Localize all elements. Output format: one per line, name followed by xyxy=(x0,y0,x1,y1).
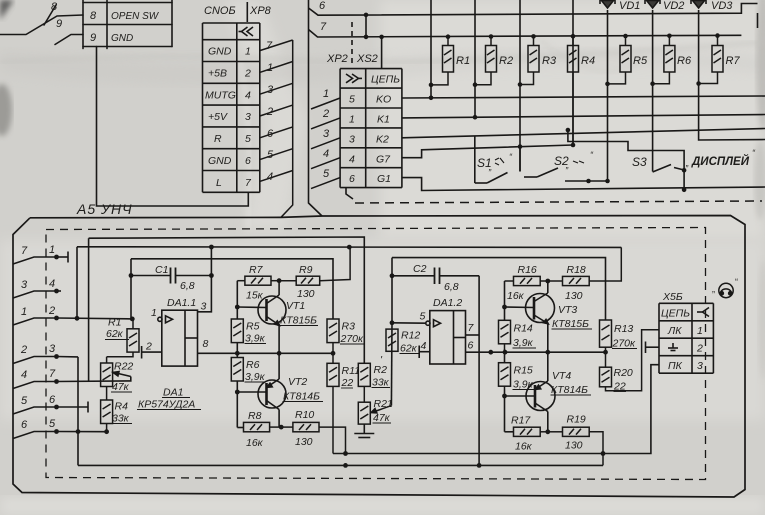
stub into XP2 table xyxy=(381,37,383,69)
resistor R4 xyxy=(568,36,579,145)
resistor R3 (270k) xyxy=(327,319,339,353)
svg-text:G1: G1 xyxy=(377,173,391,185)
pin5 stub xyxy=(392,322,426,324)
svg-text:6: 6 xyxy=(21,419,28,431)
svg-text:4: 4 xyxy=(421,340,427,352)
svg-text:8: 8 xyxy=(90,10,97,22)
svg-text:5: 5 xyxy=(21,395,28,407)
svg-text:1: 1 xyxy=(151,307,157,319)
svg-text:5: 5 xyxy=(245,133,251,145)
svg-text:КР574УД2А: КР574УД2А xyxy=(138,399,195,411)
bottom ground bus xyxy=(78,464,603,466)
svg-text:2: 2 xyxy=(696,343,703,355)
pin4 stub xyxy=(57,290,62,292)
svg-text:R14: R14 xyxy=(514,323,533,335)
svg-text:9: 9 xyxy=(90,32,96,44)
svg-text:33к: 33к xyxy=(372,377,390,389)
svg-text:R22: R22 xyxy=(114,361,133,373)
svg-text:КТ814Б: КТ814Б xyxy=(283,391,320,403)
wire pin9 entry xyxy=(44,5,83,45)
pin7 wire to R22 wiper xyxy=(57,377,131,382)
table XP2 XS2 frame xyxy=(340,68,402,70)
pin8 output stub xyxy=(198,352,238,354)
resistor R13 (270k) xyxy=(600,320,612,352)
riser yB left xyxy=(76,247,78,318)
wire yC2 to R13 xyxy=(392,258,606,320)
svg-text:„: „ xyxy=(565,160,569,170)
column wire K1 drive xyxy=(474,0,476,117)
svg-text:3,9к: 3,9к xyxy=(245,333,266,345)
svg-text:R4: R4 xyxy=(115,401,129,413)
harness bundle XS2 xyxy=(309,0,323,216)
wire G1 xyxy=(402,178,765,191)
svg-text:6: 6 xyxy=(349,173,355,185)
svg-text:GND: GND xyxy=(111,33,133,44)
svg-text:16к: 16к xyxy=(515,441,533,453)
svg-text:6: 6 xyxy=(267,128,274,140)
svg-text:130: 130 xyxy=(565,440,583,452)
svg-text:ЦЕПЬ: ЦЕПЬ xyxy=(371,74,400,86)
diode VD1 column xyxy=(607,10,609,181)
block dashed inner border xyxy=(46,228,706,480)
svg-text:5: 5 xyxy=(420,311,426,323)
R21 wiper arrow xyxy=(376,406,391,411)
resistor R18 (130) xyxy=(548,247,622,285)
svg-text:6: 6 xyxy=(319,0,326,12)
svg-text:3: 3 xyxy=(49,343,56,355)
diode VD3 column xyxy=(699,10,765,140)
op-amp DA1.1 xyxy=(142,247,238,366)
svg-text:R3: R3 xyxy=(342,321,356,333)
C1 feedback riser xyxy=(130,259,132,319)
svg-text:R11: R11 xyxy=(342,365,360,377)
wire 6 corner right edge xyxy=(757,13,759,28)
transistor VT4 (KT814B pnp) xyxy=(526,352,555,432)
block solid border xyxy=(13,216,745,498)
table CNOB XP8 frame xyxy=(203,22,260,24)
switch S3 xyxy=(653,165,685,173)
svg-text:GND: GND xyxy=(208,46,232,58)
svg-text:2: 2 xyxy=(244,68,251,80)
bus yB xyxy=(77,246,621,249)
switch S2 xyxy=(524,130,684,190)
svg-text:22: 22 xyxy=(613,381,626,393)
XP8 right fan diagonals xyxy=(260,40,293,217)
svg-text:3: 3 xyxy=(201,301,207,313)
XP2/XS2 dashed divider xyxy=(351,22,353,66)
resistor R1 xyxy=(431,37,454,85)
svg-text:XP2: XP2 xyxy=(326,53,348,65)
svg-text:MUTG: MUTG xyxy=(205,90,236,102)
wire yC to R3 xyxy=(131,259,333,319)
diode VD2 column xyxy=(652,10,654,172)
svg-text:VT2: VT2 xyxy=(288,376,307,388)
svg-text:K2: K2 xyxy=(376,134,389,146)
transistor VT2 (KT814B pnp) xyxy=(258,353,286,427)
resistor R5 xyxy=(608,36,632,84)
XP8 harness bundle xyxy=(281,40,293,217)
svg-text:ДИСПЛЕЙ: ДИСПЛЕЙ xyxy=(691,155,750,168)
svg-text:9: 9 xyxy=(56,18,62,30)
svg-text:3: 3 xyxy=(323,128,330,140)
resistor R7 xyxy=(699,36,723,84)
svg-text:8: 8 xyxy=(51,1,58,13)
bus yA xyxy=(89,237,365,363)
diode VD2 xyxy=(645,0,660,8)
svg-text:7: 7 xyxy=(320,21,327,33)
svg-text:А5 УНЧ: А5 УНЧ xyxy=(76,201,133,217)
pin3 wire xyxy=(57,356,79,358)
svg-text:R18: R18 xyxy=(567,264,586,276)
svg-text:VT1: VT1 xyxy=(286,300,305,312)
svg-text:ЛК: ЛК xyxy=(667,325,682,337)
svg-text:7: 7 xyxy=(49,368,56,380)
channel1 output rail xyxy=(237,352,333,354)
svg-text:4: 4 xyxy=(267,171,273,183)
column wire K2/S1 drive xyxy=(519,0,521,172)
svg-text:R9: R9 xyxy=(299,264,313,276)
svg-text:R21: R21 xyxy=(374,398,393,410)
svg-text:1: 1 xyxy=(349,114,355,126)
svg-text:DA1: DA1 xyxy=(163,387,183,399)
svg-text:R10: R10 xyxy=(295,409,314,421)
svg-text:ЦЕПЬ: ЦЕПЬ xyxy=(661,308,690,320)
jumper wire6-wire7 xyxy=(365,15,367,37)
svg-text:VD1: VD1 xyxy=(619,0,640,12)
svg-text:GND: GND xyxy=(208,155,232,167)
svg-text:„: „ xyxy=(685,158,689,168)
svg-text:270к: 270к xyxy=(340,333,365,345)
svg-text:ПК: ПК xyxy=(668,360,683,372)
table J? frame xyxy=(83,0,172,49)
svg-text:3,9к: 3,9к xyxy=(245,371,266,383)
svg-text:X5Б: X5Б xyxy=(662,291,683,303)
shield wire from table to CNOB table bottom xyxy=(97,47,249,207)
wire K2 xyxy=(402,129,765,138)
svg-text:1: 1 xyxy=(267,62,273,74)
R12/pin5 riser xyxy=(390,323,393,406)
svg-text:6: 6 xyxy=(468,340,474,352)
svg-text:R8: R8 xyxy=(248,410,262,422)
svg-text:R12: R12 xyxy=(401,330,420,342)
VT3 base wire xyxy=(505,306,535,309)
svg-text:8: 8 xyxy=(203,338,209,350)
svg-text:R1: R1 xyxy=(108,317,121,329)
svg-text:K1: K1 xyxy=(377,114,390,126)
resistor R12 (62k) xyxy=(386,329,398,351)
resistor R8 (16k) xyxy=(244,422,282,431)
resistor R15 (3,9k) xyxy=(499,363,511,390)
VT4 base wire xyxy=(505,395,536,397)
column wire G7 drive xyxy=(572,0,574,145)
pin6 stub with tick xyxy=(57,406,89,408)
svg-text:6,8: 6,8 xyxy=(444,281,459,293)
svg-text:XS2: XS2 xyxy=(356,53,378,65)
wire 6 (LED anode line) xyxy=(309,4,758,16)
capacitor C1 (6,8) xyxy=(171,268,176,284)
resistor R5 (3,9k) xyxy=(231,319,243,343)
svg-text:R: R xyxy=(214,133,222,145)
op-amp DA1.2 xyxy=(392,311,606,364)
value underlines xyxy=(111,326,637,424)
svg-text:7: 7 xyxy=(21,245,28,257)
svg-text:КТ815Б: КТ815Б xyxy=(280,315,317,327)
resistor R7 (15k) xyxy=(237,276,279,285)
capacitor C2 (6,8) xyxy=(435,268,440,285)
C2 right riser down to ground bus xyxy=(478,276,480,466)
svg-text:R16: R16 xyxy=(518,264,537,276)
svg-text:“: “ xyxy=(735,277,738,287)
svg-text:C1: C1 xyxy=(155,264,168,276)
input fan diagonals and stubs xyxy=(13,257,57,439)
PK wire xyxy=(333,365,659,454)
resistor R11 (22) xyxy=(327,353,339,453)
svg-text:2: 2 xyxy=(266,106,273,118)
svg-text:R6: R6 xyxy=(677,55,692,67)
svg-text:130: 130 xyxy=(565,290,583,302)
svg-text:130: 130 xyxy=(295,436,313,448)
svg-text:R1: R1 xyxy=(456,55,470,67)
pin5 wire xyxy=(57,431,107,433)
header divider tick xyxy=(246,2,248,22)
svg-text:C2: C2 xyxy=(413,263,427,275)
pin6 output stub xyxy=(466,351,606,353)
column wire K0 drive xyxy=(430,0,432,98)
svg-text:3: 3 xyxy=(245,111,251,123)
resistor R19 (130) xyxy=(548,427,603,465)
svg-text:„: „ xyxy=(488,162,492,172)
svg-text:+5B: +5B xyxy=(208,68,227,80)
junction dots left stage xyxy=(235,278,335,429)
R22 wiper arrow xyxy=(116,373,131,377)
pin7 stub xyxy=(466,334,480,336)
dashed separator under switches xyxy=(355,201,762,203)
svg-text:G7: G7 xyxy=(376,154,391,166)
socket arrow in header xyxy=(703,308,710,317)
svg-text:R5: R5 xyxy=(633,55,648,67)
svg-text:6: 6 xyxy=(245,155,251,167)
svg-text:VT4: VT4 xyxy=(552,370,571,382)
R21 ground xyxy=(354,424,374,437)
svg-text:15к: 15к xyxy=(246,290,264,302)
svg-text:33к: 33к xyxy=(112,413,130,425)
svg-text:„: „ xyxy=(712,284,715,294)
svg-text:22: 22 xyxy=(341,377,354,389)
pin2 wire to R1 top xyxy=(57,317,133,320)
resistor R21 (47k trimmer) xyxy=(358,386,391,424)
svg-text:R17: R17 xyxy=(511,415,531,427)
wire pin8 entry xyxy=(0,15,83,35)
resistor R20 (22) xyxy=(600,330,660,391)
svg-text:47к: 47к xyxy=(373,412,391,424)
svg-text:R20: R20 xyxy=(614,367,633,379)
plug arrow in header row xyxy=(239,27,254,36)
fan junction dots xyxy=(54,255,80,434)
VT1 base wire xyxy=(237,306,266,309)
svg-text:62к: 62к xyxy=(106,328,124,340)
svg-text:3: 3 xyxy=(697,360,703,372)
svg-text:S3: S3 xyxy=(632,155,647,169)
svg-text:6,8: 6,8 xyxy=(180,280,195,292)
svg-text:R15: R15 xyxy=(514,365,533,377)
wire K1 xyxy=(402,115,765,118)
svg-text:62к: 62к xyxy=(400,343,418,355)
svg-text:2: 2 xyxy=(48,305,55,317)
pin3 ground drop xyxy=(77,357,79,466)
pin3 stub and riser xyxy=(198,247,212,312)
S1 mini symbol xyxy=(495,158,584,165)
resistor R2 xyxy=(475,37,497,85)
resistor R1 (62k) xyxy=(107,319,139,357)
wire G7 xyxy=(402,145,573,158)
svg-text:3: 3 xyxy=(21,279,28,291)
svg-text:R6: R6 xyxy=(246,359,260,371)
svg-text:R19: R19 xyxy=(567,414,586,426)
svg-text:2: 2 xyxy=(145,341,152,353)
svg-text:270к: 270к xyxy=(612,338,637,350)
svg-text:R13: R13 xyxy=(614,323,633,335)
svg-text:R2: R2 xyxy=(499,55,513,67)
svg-text:6: 6 xyxy=(49,394,56,406)
wire K0 xyxy=(402,96,765,98)
svg-text:7: 7 xyxy=(266,40,273,52)
svg-text:+5V: +5V xyxy=(208,111,228,123)
svg-text:R7: R7 xyxy=(249,264,264,276)
svg-text:VT3: VT3 xyxy=(558,304,577,316)
svg-text:1: 1 xyxy=(21,306,27,318)
resistor R17 (16k) xyxy=(514,427,548,436)
headphone icon xyxy=(712,277,738,298)
resistor R10 (130) xyxy=(281,422,345,453)
pin1 stub with tick xyxy=(57,256,69,258)
svg-text:1: 1 xyxy=(49,244,55,256)
svg-text:5: 5 xyxy=(323,168,330,180)
svg-text:16к: 16к xyxy=(507,290,525,302)
svg-text:1: 1 xyxy=(697,325,703,337)
svg-text:3,9к: 3,9к xyxy=(513,337,534,349)
svg-text:VD2: VD2 xyxy=(663,0,684,12)
svg-text:2: 2 xyxy=(20,344,27,356)
pin4 stub with tick xyxy=(419,351,430,353)
svg-text:4: 4 xyxy=(349,154,355,166)
svg-text:4: 4 xyxy=(323,148,329,160)
svg-text:5: 5 xyxy=(267,149,274,161)
diode VD1 xyxy=(600,0,615,8)
svg-text:4: 4 xyxy=(21,369,27,381)
resistor R16 (16k) xyxy=(505,276,548,285)
svg-text:KO: KO xyxy=(376,94,391,106)
riser yA left xyxy=(88,238,90,381)
XS2 left fan xyxy=(311,98,340,189)
svg-text:DA1.1: DA1.1 xyxy=(167,297,196,309)
svg-text:XP8: XP8 xyxy=(249,5,272,17)
switch S1 xyxy=(475,136,520,183)
resistor R4 (33k) xyxy=(101,400,113,432)
ground stub with tick xyxy=(646,346,660,348)
wire 7 (+5V bus to resistors) xyxy=(309,30,742,38)
svg-text:47к: 47к xyxy=(112,381,130,393)
svg-text:5: 5 xyxy=(49,418,56,430)
X5B connector table xyxy=(659,303,713,373)
transistor VT1 (KT815B npn) xyxy=(258,281,286,354)
svg-text:16к: 16к xyxy=(246,437,264,449)
svg-text:CNОБ: CNОБ xyxy=(204,5,236,17)
svg-text:DA1.2: DA1.2 xyxy=(433,297,462,309)
right bias chain vertical xyxy=(505,281,536,432)
left bias chain vertical xyxy=(237,281,266,428)
VT2 base wire xyxy=(237,391,266,393)
svg-text:R3: R3 xyxy=(542,55,557,67)
plug arrow in XP2 header xyxy=(346,74,362,83)
resistor R6 (3,9k) xyxy=(231,358,243,382)
resistor R3 xyxy=(520,36,539,84)
svg-text:4: 4 xyxy=(245,90,251,102)
transistor VT3 (KT815B npn) xyxy=(526,281,555,352)
svg-text:4: 4 xyxy=(49,278,55,290)
pin2 stub with tick xyxy=(142,351,162,353)
junction dots right stage xyxy=(343,279,605,456)
table tail xyxy=(346,188,353,199)
svg-text:2: 2 xyxy=(322,108,329,120)
svg-text:1: 1 xyxy=(245,46,251,58)
svg-text:L: L xyxy=(216,177,222,189)
resistor R6 xyxy=(653,36,675,84)
svg-text:R5: R5 xyxy=(246,321,260,333)
diode VD3 xyxy=(691,0,706,8)
svg-text:КТ814Б: КТ814Б xyxy=(551,384,588,396)
fan pin wires xyxy=(57,237,622,465)
svg-text:130: 130 xyxy=(297,288,315,300)
svg-text:3: 3 xyxy=(267,84,274,96)
svg-text:R7: R7 xyxy=(726,55,741,67)
resistor R22 (47k trimmer) xyxy=(101,357,113,400)
ground symbol in table row 2 xyxy=(668,343,678,351)
resistor R2 (33k) xyxy=(358,363,370,386)
resistor R9 (130) xyxy=(279,247,350,285)
svg-text:3: 3 xyxy=(349,134,355,146)
channel wires to X5B xyxy=(333,342,659,454)
svg-text:КТ815Б: КТ815Б xyxy=(552,318,589,330)
svg-text:VD3: VD3 xyxy=(711,0,733,12)
resistor R14 (3,9k) xyxy=(499,320,511,352)
svg-text:5: 5 xyxy=(349,94,355,106)
svg-text:1: 1 xyxy=(323,88,329,100)
junction dots top area xyxy=(364,13,720,193)
svg-text:OPEN SW: OPEN SW xyxy=(111,11,160,22)
svg-text:R4: R4 xyxy=(581,55,595,67)
